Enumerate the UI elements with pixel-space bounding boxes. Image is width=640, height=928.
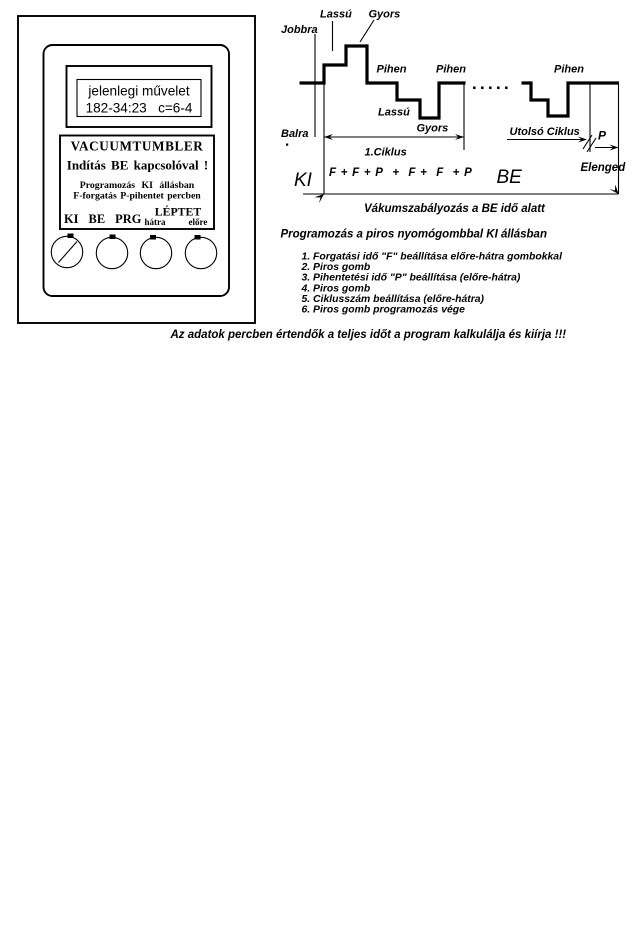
- svg-text:Vákumszabályozás a BE idő alat: Vákumszabályozás a BE idő alatt: [364, 203, 546, 215]
- knob 1 slot line: [59, 242, 78, 263]
- svg-text:P: P: [598, 129, 607, 143]
- knob 2: [96, 237, 127, 268]
- extension line right of cycle 1: [463, 83, 465, 150]
- extension line far right: [618, 83, 620, 194]
- svg-text:BE: BE: [497, 167, 523, 188]
- stray dot below Balra: [286, 144, 288, 146]
- svg-text:1.Ciklus: 1.Ciklus: [365, 147, 407, 159]
- svg-text:Az adatok percben értendők a t: Az adatok percben értendők a teljes időt…: [170, 329, 567, 341]
- waveform first cycle: [300, 46, 466, 118]
- knob 4: [185, 237, 216, 268]
- svg-text:2. Piros gomb: 2. Piros gomb: [301, 262, 371, 273]
- svg-text:4. Piros gomb: 4. Piros gomb: [301, 283, 371, 294]
- svg-text:Pihen: Pihen: [436, 64, 466, 76]
- svg-text:előre: előre: [189, 217, 208, 227]
- dimension line P: [595, 147, 618, 149]
- svg-text:Jobbra: Jobbra: [281, 24, 318, 36]
- svg-text:3. Pihentetési idő "P" beállít: 3. Pihentetési idő "P" beállítása (előre…: [302, 273, 521, 284]
- dimension line 1.Ciklus: [324, 136, 464, 138]
- pointer line Lassu: [332, 21, 334, 51]
- bottom dimension line BE time: [303, 193, 619, 195]
- knob 4 tick: [195, 235, 201, 240]
- knob 1 (with slot): [51, 236, 82, 267]
- arrowhead bottom left: [315, 194, 325, 203]
- svg-text:KI BE PRG: KI BE PRG: [64, 212, 142, 226]
- svg-text:1. Forgatási idő "F" beállítás: 1. Forgatási idő "F" beállítása előre-há…: [302, 252, 564, 263]
- svg-text:Utolsó Ciklus: Utolsó Ciklus: [510, 126, 580, 138]
- svg-text:jelenlegi művelet: jelenlegi művelet: [87, 84, 189, 99]
- break slashes between dims: [583, 135, 592, 149]
- arrowhead left 1.Ciklus: [324, 134, 333, 140]
- svg-text:Gyors: Gyors: [417, 123, 449, 135]
- control panel inner face: [44, 45, 230, 296]
- timing axis vertical: [314, 34, 316, 137]
- label plate box: [60, 136, 214, 230]
- svg-text:VACUUMTUMBLER: VACUUMTUMBLER: [71, 139, 204, 154]
- svg-text:F + F + P + F + F + P: F + F + P + F + F + P: [329, 167, 472, 179]
- extension line last cycle left: [589, 83, 591, 152]
- arrowhead bottom right: [609, 185, 618, 195]
- dimension line Utolso Ciklus: [507, 139, 586, 141]
- knob 2 tick: [110, 235, 116, 240]
- svg-text:Pihen: Pihen: [377, 64, 407, 76]
- knob 3 tick: [150, 235, 156, 240]
- waveform last cycle: [522, 83, 620, 116]
- svg-text:KI: KI: [294, 170, 313, 191]
- svg-text:Elenged: Elenged: [581, 162, 627, 174]
- svg-text:Lassú: Lassú: [320, 9, 352, 21]
- svg-text:hátra: hátra: [145, 217, 166, 227]
- svg-text:Balra: Balra: [281, 128, 309, 140]
- pointer line Gyors: [360, 20, 374, 42]
- svg-text:F-forgatás P-pihentet percben: F-forgatás P-pihentet percben: [73, 191, 201, 202]
- svg-text:Programozás KI állásban: Programozás KI állásban: [80, 180, 195, 191]
- knob 3: [140, 237, 171, 268]
- svg-text:Lassú: Lassú: [378, 107, 410, 119]
- svg-text:6. Piros gomb programozás vége: 6. Piros gomb programozás vége: [302, 305, 466, 316]
- svg-text:182-34:23 c=6-4: 182-34:23 c=6-4: [86, 101, 193, 116]
- extension line left of cycle 1: [323, 83, 325, 194]
- svg-text:Pihen: Pihen: [554, 64, 584, 76]
- svg-text:Programozás a piros nyomógombb: Programozás a piros nyomógombbal KI állá…: [281, 229, 547, 241]
- waveform continuation dots: [473, 87, 508, 90]
- LCD glass: [77, 80, 201, 117]
- arrowhead right 1.Ciklus: [455, 134, 464, 140]
- arrowhead Utolso Ciklus: [578, 137, 587, 143]
- control panel outer enclosure: [18, 16, 255, 323]
- svg-text:5. Ciklusszám beállítása (előr: 5. Ciklusszám beállítása (előre-hátra): [302, 294, 485, 305]
- svg-text:Indítás BE kapcsolóval !: Indítás BE kapcsolóval !: [67, 158, 208, 173]
- svg-text:Gyors: Gyors: [369, 9, 401, 21]
- LCD bezel: [67, 66, 212, 127]
- knob 1 tick: [68, 234, 74, 239]
- arrowhead P: [610, 145, 619, 151]
